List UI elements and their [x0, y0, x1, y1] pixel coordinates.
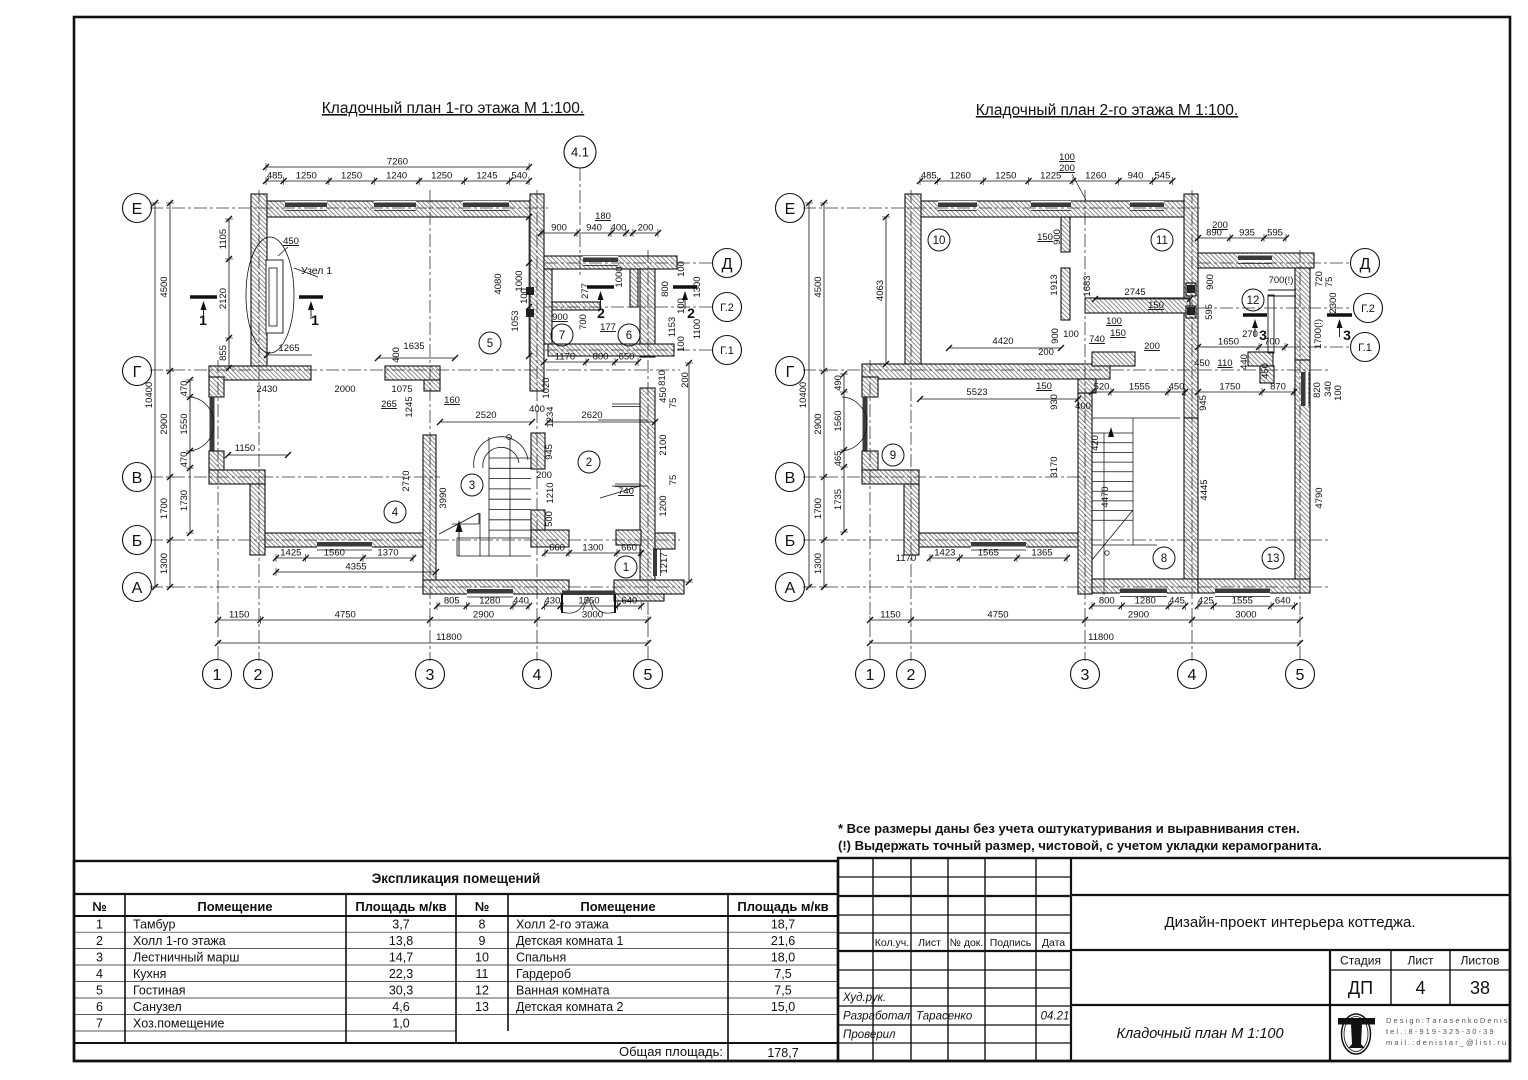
svg-text:3: 3: [96, 951, 103, 965]
svg-text:3990: 3990: [438, 487, 449, 508]
axis circle 1: [856, 660, 885, 689]
axis G2 line plan2: [1198, 307, 1352, 309]
fireplace oval Uzel 1: [246, 237, 294, 353]
svg-text:7260: 7260: [387, 157, 408, 168]
wall corner row V plan1: [209, 470, 265, 484]
chain row B east plan1: [542, 543, 644, 558]
svg-text:640: 640: [1275, 596, 1291, 607]
svg-text:1560: 1560: [324, 548, 345, 559]
svg-text:2000: 2000: [334, 384, 355, 395]
svg-text:1265: 1265: [278, 343, 299, 354]
stair east wall upper plan1: [531, 433, 545, 469]
svg-text:2900: 2900: [473, 610, 494, 621]
svg-text:100: 100: [676, 261, 687, 277]
svg-text:1100: 1100: [692, 319, 703, 339]
axis G line plan1: [150, 369, 680, 371]
svg-text:7,5: 7,5: [774, 984, 791, 998]
svg-text:А: А: [785, 580, 796, 597]
left chain plan2: [813, 200, 828, 590]
svg-text:1735: 1735: [833, 489, 844, 510]
svg-text:4063: 4063: [875, 280, 886, 301]
svg-text:Подпись: Подпись: [990, 937, 1032, 949]
svg-text:* Все размеры даны без учета о: * Все размеры даны без учета оштукатурив…: [838, 821, 1300, 836]
svg-text:Общая площадь:: Общая площадь:: [619, 1044, 723, 1059]
wall seg mid plan2: [1092, 352, 1135, 366]
chain above A plan2: [927, 548, 1070, 563]
wall rooms 11-12 plan2: [1085, 298, 1190, 313]
top chain plan1: [263, 171, 532, 186]
stamp outer frame: [838, 858, 1510, 1061]
svg-text:1555: 1555: [1129, 382, 1150, 393]
stair east wall lower plan1: [531, 510, 545, 530]
top wall row E plan2: [905, 201, 1197, 217]
svg-text:Г: Г: [786, 364, 795, 381]
svg-text:10: 10: [933, 235, 946, 247]
room number 8: [1153, 547, 1175, 569]
svg-text:3: 3: [1343, 327, 1351, 343]
room number 4: [384, 501, 406, 523]
svg-text:1105: 1105: [218, 229, 229, 249]
svg-text:6: 6: [96, 1000, 103, 1014]
wall notch plan1: [424, 380, 440, 391]
svg-text:870: 870: [1270, 382, 1286, 393]
room number 3: [461, 474, 483, 496]
leader 100-200 plan2: [1072, 174, 1086, 200]
svg-text:450: 450: [1169, 382, 1185, 393]
dim 10400 plan1: [144, 200, 159, 590]
svg-text:1250: 1250: [995, 171, 1016, 182]
window W3 plan2: [1130, 201, 1164, 211]
section mark 2 left 2: [587, 287, 614, 321]
svg-text:200: 200: [1059, 163, 1075, 174]
bottom chain B plan2: [867, 610, 1303, 625]
svg-text:1: 1: [866, 667, 875, 684]
svg-text:450: 450: [1260, 363, 1271, 379]
svg-text:1550: 1550: [578, 596, 599, 607]
axis circle 3: [1071, 660, 1100, 689]
bottom wall row A west plan1: [423, 580, 569, 594]
svg-text:150: 150: [1148, 300, 1164, 311]
svg-text:2: 2: [254, 667, 263, 684]
svg-text:1560: 1560: [833, 410, 844, 431]
svg-text:Тарасенко: Тарасенко: [916, 1011, 973, 1023]
svg-text:100: 100: [1059, 152, 1075, 163]
svg-text:Лист: Лист: [1407, 954, 1434, 968]
axis 2 line plan1: [258, 190, 260, 661]
svg-text:D e s i g n : T a r a s e n k: D e s i g n : T a r a s e n k o D e n i …: [1386, 1016, 1508, 1025]
svg-text:1300: 1300: [692, 276, 703, 297]
svg-text:4: 4: [533, 667, 542, 684]
svg-text:10: 10: [475, 951, 489, 965]
svg-text:2100: 2100: [658, 434, 669, 455]
svg-text:900: 900: [1050, 328, 1061, 344]
svg-text:940: 940: [1128, 171, 1144, 182]
svg-text:2: 2: [907, 667, 916, 684]
wall row B east seg plan1: [531, 530, 569, 547]
annex bottom wall G1 plan1: [548, 344, 674, 356]
axis 4 line plan2: [1191, 190, 1193, 661]
bottom chain A2 plan2: [1195, 596, 1298, 611]
axis D line plan2: [1198, 262, 1352, 264]
svg-text:5523: 5523: [966, 387, 987, 398]
svg-text:1150: 1150: [880, 610, 900, 621]
section mark 3 left 3: [1243, 315, 1267, 343]
window W2 plan2: [1031, 201, 1071, 211]
dim line 4080 plan1: [528, 217, 530, 356]
svg-text:Кладочный план 2-го этажа М 1:: Кладочный план 2-го этажа М 1:100.: [976, 102, 1238, 119]
svg-text:8: 8: [479, 918, 486, 932]
wall row G2 rooms 7 plan1: [552, 302, 600, 310]
svg-text:В: В: [785, 470, 796, 487]
window row A w1 plan2: [1120, 587, 1167, 597]
room number 5: [479, 332, 501, 354]
west wall seg1 plan2: [862, 377, 878, 397]
svg-text:800: 800: [660, 281, 671, 297]
svg-text:200: 200: [1144, 341, 1160, 352]
dim 4063 plan2: [875, 214, 890, 367]
svg-text:1750: 1750: [1219, 382, 1240, 393]
axis circle Е: [123, 194, 152, 223]
svg-text:9: 9: [890, 450, 896, 462]
svg-text:945: 945: [544, 444, 555, 460]
window row A w2 plan2: [1215, 587, 1270, 597]
svg-text:2710: 2710: [401, 470, 412, 491]
svg-text:4: 4: [1415, 978, 1425, 998]
staircase plan2: [1092, 418, 1180, 595]
axis 2 line plan2: [910, 190, 912, 661]
axis circle А: [776, 573, 805, 602]
dim 4355 plan1: [273, 562, 439, 577]
svg-text:11: 11: [476, 967, 489, 981]
svg-text:А: А: [132, 580, 143, 597]
svg-text:2120: 2120: [218, 288, 229, 309]
partition rooms 10-11 upper plan2: [1061, 217, 1070, 252]
svg-text:Кладочный план 1-го этажа М 1:: Кладочный план 1-го этажа М 1:100.: [322, 100, 584, 117]
left chain plan1: [159, 200, 174, 590]
svg-text:t e l . : 8 - 9 1 9 - 3 2 5 -: t e l . : 8 - 9 1 9 - 3 2 5 - 3 0 - 3 9: [1386, 1027, 1494, 1036]
pier sq1 plan2: [1186, 283, 1196, 296]
svg-text:820: 820: [1312, 382, 1323, 398]
svg-text:150: 150: [1110, 328, 1126, 339]
explication column lines: [125, 894, 728, 1061]
svg-text:440: 440: [513, 596, 529, 607]
svg-text:270: 270: [1242, 329, 1258, 340]
svg-text:485: 485: [267, 171, 283, 182]
svg-text:940: 940: [586, 223, 602, 234]
svg-text:930: 930: [1049, 394, 1060, 410]
svg-text:1365: 1365: [1031, 548, 1052, 559]
svg-text:1225: 1225: [1040, 171, 1061, 182]
svg-text:2520: 2520: [475, 410, 496, 421]
svg-text:2430: 2430: [256, 384, 277, 395]
east wall lower plan1: [640, 388, 655, 582]
svg-text:200: 200: [536, 470, 552, 481]
left upper inner chain plan1: [218, 216, 233, 371]
svg-text:38: 38: [1470, 978, 1490, 998]
svg-text:470: 470: [179, 452, 190, 468]
partition rooms 6-7 plan1: [630, 269, 638, 307]
svg-text:5: 5: [1296, 667, 1305, 684]
svg-text:1000: 1000: [614, 266, 625, 287]
svg-text:1300: 1300: [159, 553, 170, 574]
svg-text:12: 12: [1247, 295, 1260, 307]
svg-text:1300: 1300: [813, 553, 824, 574]
svg-text:Проверил: Проверил: [843, 1029, 896, 1041]
pier at B row plan1: [616, 530, 641, 545]
section mark 1 right 1: [299, 297, 323, 328]
svg-text:3170: 3170: [1049, 456, 1060, 477]
svg-text:1234: 1234: [545, 406, 556, 427]
axis E line plan2: [803, 207, 1200, 209]
dim 11800 plan1: [218, 642, 648, 644]
svg-text:30,3: 30,3: [389, 984, 413, 998]
axis 3 line plan1: [429, 190, 431, 661]
svg-text:4420: 4420: [992, 336, 1013, 347]
annex east wall plan2: [1295, 268, 1310, 360]
wall row B plan2: [919, 533, 1082, 547]
svg-text:450: 450: [1194, 358, 1210, 369]
svg-text:4445: 4445: [1199, 479, 1210, 500]
window W2 plan1: [374, 201, 416, 211]
svg-text:4355: 4355: [345, 562, 366, 573]
axis circle Б: [776, 526, 805, 555]
svg-text:75: 75: [1324, 277, 1335, 288]
axis circle В: [123, 463, 152, 492]
svg-text:Тамбур: Тамбур: [133, 918, 175, 932]
room number 2: [578, 451, 600, 473]
svg-text:595: 595: [1204, 304, 1215, 320]
svg-text:900: 900: [1205, 274, 1216, 290]
svg-text:900: 900: [552, 312, 568, 323]
window annex plan1: [583, 256, 618, 266]
svg-text:545: 545: [1155, 171, 1171, 182]
svg-text:1700: 1700: [813, 498, 824, 519]
chain mid plan2: [1089, 382, 1188, 397]
axis circle Г: [776, 357, 805, 386]
room number 13: [1262, 547, 1284, 569]
svg-text:180: 180: [595, 211, 611, 222]
svg-text:800: 800: [1099, 596, 1115, 607]
axis circle Г.1: [713, 336, 742, 365]
axis circle 1: [203, 660, 232, 689]
svg-text:740: 740: [1089, 334, 1105, 345]
svg-text:13: 13: [1267, 553, 1280, 565]
east wall main plan1: [530, 194, 544, 391]
svg-text:640: 640: [621, 596, 637, 607]
svg-text:Г: Г: [133, 364, 142, 381]
axis circle Г.2: [1354, 294, 1383, 323]
axis G1 line plan2: [1198, 346, 1352, 348]
svg-text:470: 470: [179, 381, 190, 397]
axis E line plan1: [150, 207, 548, 209]
svg-text:700: 700: [578, 314, 589, 330]
svg-text:ДП: ДП: [1348, 978, 1373, 998]
bottom chain A1 plan1: [434, 596, 532, 611]
wall row B plan1: [265, 533, 428, 547]
stamp signature grid: [838, 858, 1071, 1061]
svg-text:1280: 1280: [1135, 596, 1156, 607]
svg-text:4.1: 4.1: [571, 145, 589, 160]
svg-text:9: 9: [479, 934, 486, 948]
svg-text:1020: 1020: [541, 377, 552, 398]
window W3 plan1: [463, 201, 509, 211]
svg-text:500: 500: [544, 511, 555, 527]
svg-text:Лист: Лист: [918, 937, 941, 949]
svg-text:1683: 1683: [1082, 275, 1093, 296]
stamp right grid: [1071, 895, 1510, 1061]
chain G1 plan2: [1195, 337, 1288, 352]
svg-text:425: 425: [1198, 596, 1214, 607]
svg-text:150: 150: [1036, 381, 1052, 392]
window annex plan2: [1238, 254, 1272, 264]
partition room12 plan2: [1268, 295, 1274, 353]
svg-text:4: 4: [392, 507, 399, 519]
svg-text:3: 3: [469, 480, 475, 492]
svg-text:430: 430: [545, 596, 561, 607]
svg-text:Г.1: Г.1: [1358, 342, 1372, 354]
svg-text:Худ.рук.: Худ.рук.: [842, 992, 886, 1004]
svg-text:Ванная комната: Ванная комната: [516, 984, 610, 998]
svg-text:450: 450: [283, 236, 299, 247]
svg-text:1: 1: [199, 312, 207, 328]
svg-text:1700: 1700: [159, 498, 170, 519]
window W1 plan2: [938, 201, 977, 211]
svg-text:4750: 4750: [335, 610, 356, 621]
svg-text:400: 400: [611, 223, 627, 234]
stair arrow plan2: [1108, 427, 1114, 437]
svg-text:2745: 2745: [1124, 287, 1145, 298]
svg-text:22,3: 22,3: [389, 967, 413, 981]
svg-text:890: 890: [1206, 228, 1222, 239]
svg-text:1245: 1245: [404, 396, 415, 417]
svg-text:2: 2: [586, 457, 592, 469]
svg-text:800: 800: [593, 352, 609, 363]
svg-text:15,0: 15,0: [771, 1000, 795, 1014]
room number 12: [1242, 289, 1264, 311]
svg-text:810: 810: [657, 370, 668, 386]
svg-text:178,7: 178,7: [767, 1046, 798, 1060]
axis G1 line plan1: [545, 349, 714, 351]
svg-text:Лестничный марш: Лестничный марш: [133, 951, 239, 965]
svg-text:660: 660: [621, 543, 637, 554]
svg-text:4: 4: [96, 967, 103, 981]
svg-text:1: 1: [311, 312, 319, 328]
svg-text:265: 265: [381, 399, 397, 410]
svg-text:Г.2: Г.2: [720, 302, 734, 314]
axis B line plan1: [150, 539, 680, 541]
svg-text:1153: 1153: [667, 317, 678, 337]
axis circle Б: [123, 526, 152, 555]
svg-text:4080: 4080: [493, 273, 504, 294]
svg-text:Узел 1: Узел 1: [301, 265, 332, 277]
svg-text:700: 700: [1264, 337, 1280, 348]
svg-text:160: 160: [444, 395, 460, 406]
svg-text:1425: 1425: [280, 548, 301, 559]
svg-text:1: 1: [213, 667, 222, 684]
svg-text:№: №: [475, 899, 490, 914]
bottom chain A1 plan2: [1089, 596, 1188, 611]
svg-text:№: №: [92, 899, 107, 914]
svg-text:14,7: 14,7: [389, 951, 413, 965]
svg-text:75: 75: [668, 475, 679, 486]
svg-text:490: 490: [833, 375, 844, 391]
svg-text:400: 400: [1075, 401, 1091, 412]
svg-text:1217: 1217: [659, 552, 670, 573]
section mark 2 right 2: [673, 287, 697, 321]
svg-text:12: 12: [475, 984, 489, 998]
window row B plan2: [971, 541, 1026, 551]
svg-text:465: 465: [833, 451, 844, 467]
axis 1 line plan1: [217, 360, 219, 661]
room number 1: [615, 556, 637, 578]
annex east wall plan1: [640, 269, 655, 357]
axis circle Д: [1351, 249, 1380, 278]
section mark 3 right 3: [1327, 315, 1352, 343]
svg-text:100: 100: [676, 336, 687, 352]
west wall below V plan2: [904, 484, 919, 555]
svg-text:420: 420: [1090, 435, 1101, 451]
svg-text:3000: 3000: [582, 610, 603, 621]
svg-text:18,0: 18,0: [771, 951, 795, 965]
svg-text:1053: 1053: [510, 310, 521, 331]
svg-text:№ док.: № док.: [950, 937, 984, 949]
axis V line plan2: [803, 476, 1090, 478]
axis circle В: [776, 463, 805, 492]
wall row G west plan1: [209, 366, 311, 380]
annex bottom chain plan1: [541, 352, 641, 367]
explication table frame: [74, 861, 838, 1061]
svg-text:Д: Д: [722, 256, 733, 273]
svg-text:1150: 1150: [229, 610, 249, 621]
svg-text:485: 485: [921, 171, 937, 182]
svg-text:Санузел: Санузел: [133, 1000, 182, 1014]
svg-text:04.21: 04.21: [1041, 1011, 1070, 1023]
svg-text:1: 1: [96, 918, 103, 932]
axis circle Г.2: [713, 293, 742, 322]
axis 4 line plan1: [536, 190, 538, 661]
axis circle Д: [713, 249, 742, 278]
svg-text:650: 650: [619, 352, 635, 363]
axis circle 4.1: [564, 136, 596, 168]
left inner chain plan2: [833, 371, 848, 535]
pier sq2 plan2: [1186, 306, 1196, 318]
svg-text:900: 900: [551, 223, 567, 234]
svg-text:1170: 1170: [896, 553, 916, 564]
section mark 1 left 1: [190, 297, 217, 328]
window row B plan1: [317, 541, 372, 551]
svg-text:Г.2: Г.2: [1361, 303, 1375, 315]
svg-text:1150: 1150: [235, 443, 255, 454]
svg-text:13,8: 13,8: [389, 934, 413, 948]
svg-text:4500: 4500: [159, 276, 170, 297]
axis circle 5: [634, 660, 663, 689]
svg-text:1210: 1210: [545, 482, 556, 503]
top wall row E plan1: [251, 201, 543, 217]
svg-text:(!) Выдержать точный размер, ч: (!) Выдержать точный размер, чистовой, с…: [838, 838, 1322, 853]
west wall kitchen plan1: [250, 484, 265, 555]
svg-text:Е: Е: [785, 201, 796, 218]
svg-text:Кладочный план М 1:100: Кладочный план М 1:100: [1116, 1026, 1283, 1042]
svg-text:1245: 1245: [476, 171, 497, 182]
svg-text:1280: 1280: [479, 596, 500, 607]
svg-text:1423: 1423: [934, 548, 955, 559]
left inner chain plan1: [179, 377, 194, 536]
svg-text:400: 400: [391, 347, 402, 363]
svg-text:1650: 1650: [1218, 337, 1239, 348]
top chain plan2: [917, 171, 1175, 186]
svg-text:177: 177: [600, 322, 616, 333]
svg-text:1250: 1250: [296, 171, 317, 182]
